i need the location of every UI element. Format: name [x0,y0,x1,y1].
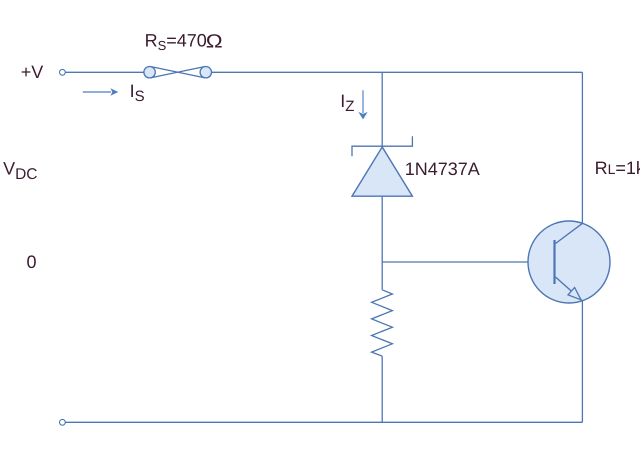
svg-text:+V: +V [21,62,44,82]
svg-text:0: 0 [27,252,37,272]
svg-text:1N4737A: 1N4737A [405,159,480,179]
svg-text:RL=1k: RL=1k [595,158,640,178]
svg-text:Ω: Ω [206,32,223,53]
svg-text:RS=470: RS=470 [145,31,207,54]
